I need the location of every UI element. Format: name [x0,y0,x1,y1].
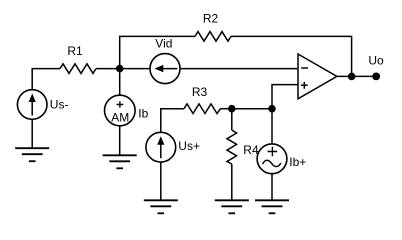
node B output [348,73,356,81]
wire op-amp noninverting input to node C [272,85,298,109]
wire node A down to ammeter [119,69,121,96]
wire node D down to R4 [231,109,233,130]
svg-text:Ib+: Ib+ [289,155,306,169]
svg-text:Uo: Uo [368,54,384,68]
wire R1 to node A [96,68,120,70]
svg-text:R3: R3 [192,85,208,99]
svg-text:Us-: Us- [50,98,69,112]
wire node C down to Ib+ [271,109,273,144]
ground under Ib+ [255,200,289,213]
voltage source Us+ [146,132,176,162]
current source Ib+ [257,144,287,174]
svg-text:Vid: Vid [155,37,172,51]
resistor R1 [60,64,96,74]
wire Vid to op-amp inverting input [180,68,298,70]
op-amp U1 [298,54,337,99]
wire Us- top to R1 [32,69,60,90]
ground under Us+ [144,200,178,213]
ground under Us- [15,148,49,161]
svg-text:Ib: Ib [138,106,148,120]
ground under ammeter [103,155,137,168]
resistor R3 [184,104,221,114]
wire node A to Vid [120,68,150,70]
svg-text:R4: R4 [243,143,259,157]
svg-text:AM: AM [111,110,129,124]
terminal Uo [372,73,380,81]
svg-text:R2: R2 [203,12,219,26]
wire ammeter to ground [119,126,121,156]
wire R3 to node D [221,108,232,110]
ammeter AM measuring Ib [105,95,136,126]
wire node A up and right to R2 [120,36,195,68]
node A [116,65,124,73]
node D [228,105,236,113]
svg-text:R1: R1 [67,44,83,58]
wire Ib+ to ground [271,174,273,201]
resistor R2 [195,32,231,42]
wire R4 to ground [231,164,233,200]
wire node C to node D [232,108,272,110]
resistor R4 [227,130,237,164]
wire Us- to ground [31,119,33,148]
ground under R4 [215,200,249,213]
svg-text:Us+: Us+ [178,139,200,153]
node C [268,105,276,113]
voltage source Us- [17,90,47,120]
wire op-amp output to Uo [337,75,376,77]
wire R2 to output node [231,36,352,76]
wire R3 to Us+ [161,109,184,133]
wire Us+ to ground [160,162,162,200]
current source Vid [150,54,180,84]
